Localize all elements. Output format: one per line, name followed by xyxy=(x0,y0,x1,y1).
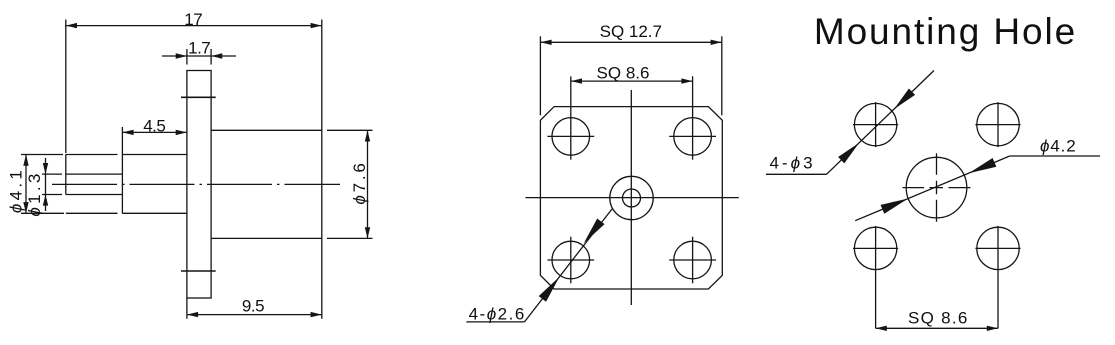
body step / 4.5 extension vertical xyxy=(121,127,123,214)
center hole crosshair horizontal (dash-dot) xyxy=(903,187,971,189)
leader phi4.2 arrow upper-right xyxy=(969,158,997,173)
flange chamfer tick bottom xyxy=(181,270,216,272)
pin bottom edge xyxy=(66,212,118,214)
dim 17 arrow right xyxy=(311,23,322,28)
pin top edge xyxy=(66,154,118,156)
horizontal centerline xyxy=(526,197,739,199)
dim 9.5 arrow left xyxy=(187,312,198,317)
leader 4-phi3 diagonal xyxy=(827,71,935,175)
mount hole bottom-left xyxy=(854,227,896,269)
dim phi7.6 extension lines xyxy=(327,129,373,131)
mount hole bottom-right xyxy=(977,227,1019,269)
leader 4-phi3 underline xyxy=(766,173,827,175)
big body top xyxy=(211,129,322,131)
dim phi4.1 line xyxy=(25,155,27,214)
dim 9.5 arrow right xyxy=(311,312,322,317)
right vertical: 17 extension + body right edge + 9.5 extension xyxy=(321,20,323,319)
dim 17 arrow left xyxy=(66,23,77,28)
centerline axis xyxy=(52,183,340,185)
dim 9.5 line xyxy=(187,314,322,316)
corner hole top-left xyxy=(552,118,590,156)
dim 4.5 arrow left xyxy=(122,130,133,135)
dim phi1.3 extension lines xyxy=(42,173,62,175)
center pin circle xyxy=(623,189,641,207)
dim 17 line xyxy=(66,25,322,27)
crosshairs bottom holes + SQ8.6 extensions xyxy=(853,247,898,249)
svg-text:4-ϕ2.6: 4-ϕ2.6 xyxy=(469,304,526,323)
svg-text:ϕ7.6: ϕ7.6 xyxy=(350,160,369,204)
svg-text:SQ 8.6: SQ 8.6 xyxy=(908,309,969,328)
inner conductor top line xyxy=(66,173,123,175)
leader 4-phi2.6 diagonal xyxy=(525,209,613,322)
dim SQ12.7 extensions xyxy=(539,36,541,115)
svg-text:Mounting Hole: Mounting Hole xyxy=(814,11,1077,52)
leader phi4.2 diagonal xyxy=(855,156,1010,221)
pin left edge xyxy=(65,154,67,194)
svg-text:ϕ4.1: ϕ4.1 xyxy=(7,167,26,213)
svg-text:4-ϕ3: 4-ϕ3 xyxy=(769,154,815,173)
big body bottom xyxy=(211,237,322,239)
dim SQ8.6 line xyxy=(571,80,693,82)
svg-text:9.5: 9.5 xyxy=(242,297,264,316)
crosshair verticals bottom holes xyxy=(570,237,572,284)
dim 4.5 line xyxy=(122,131,186,133)
mid body bottom xyxy=(122,212,186,214)
svg-text:ϕ1.3: ϕ1.3 xyxy=(25,170,44,216)
leader phi4.2 underline xyxy=(1010,155,1100,157)
crosshair horizontals top holes xyxy=(547,135,594,137)
dim 4.5 arrow right xyxy=(176,130,187,135)
dim 1.7 extension lines xyxy=(186,49,188,65)
leader 4-phi2.6 underline xyxy=(466,321,524,323)
leader 4-phi3 arrow upper xyxy=(894,89,915,110)
dim 1.7 outside arrow left xyxy=(162,55,187,57)
dim 9.5 left extension xyxy=(186,298,188,319)
dim phi4.1 extension lines xyxy=(21,154,63,156)
center connector outer circle xyxy=(610,176,653,219)
flange chamfer tick top xyxy=(181,96,216,98)
mount hole top-right xyxy=(977,103,1019,145)
dim SQ12.7 line xyxy=(540,41,721,43)
svg-text:1.7: 1.7 xyxy=(188,39,210,58)
svg-text:17: 17 xyxy=(184,10,202,29)
leader 4-phi3 arrow lower xyxy=(838,143,859,164)
leader arrow lower (points up-right at hole edge) xyxy=(539,277,560,302)
mount hole top-left xyxy=(854,103,896,145)
crosshairs top holes xyxy=(853,124,898,126)
svg-text:ϕ4.2: ϕ4.2 xyxy=(1040,136,1077,155)
dim phi1.3 line with outside arrows xyxy=(45,158,47,211)
dim phi7.6 line xyxy=(367,130,369,238)
inner conductor bottom line xyxy=(66,194,123,196)
corner hole bottom-left xyxy=(552,241,590,279)
flange outline xyxy=(187,71,211,299)
dim phi7.6 arrow top xyxy=(365,130,370,141)
crosshair horizontals bottom holes xyxy=(547,259,594,261)
center hole crosshair vertical (dash-dot) xyxy=(936,153,938,222)
dim phi7.6 arrow bottom xyxy=(365,227,370,238)
dim phi4.1 arrow bottom xyxy=(23,202,28,213)
dim 1.7 outside arrow right xyxy=(211,55,236,57)
leader phi4.2 arrow lower-left xyxy=(881,199,909,214)
dim 17 left extension xyxy=(65,20,67,154)
vertical centerline xyxy=(630,90,632,305)
svg-text:SQ 12.7: SQ 12.7 xyxy=(600,22,662,41)
dim 1.7 line xyxy=(187,55,211,57)
leader arrow upper (points down-left at hole edge) xyxy=(584,219,605,244)
svg-text:4.5: 4.5 xyxy=(143,117,165,136)
chamfered square flange outline xyxy=(540,107,722,289)
mid body top xyxy=(122,154,186,156)
svg-text:SQ 8.6: SQ 8.6 xyxy=(597,63,650,82)
dim phi4.1 arrow top xyxy=(23,155,28,166)
corner hole top-right xyxy=(674,118,712,156)
SQ 8.6 extensions merged with top hole verticals xyxy=(570,76,572,159)
dim SQ8.6 line (right view) xyxy=(876,327,998,329)
center hole circle xyxy=(906,157,967,218)
corner hole bottom-right xyxy=(674,241,712,279)
